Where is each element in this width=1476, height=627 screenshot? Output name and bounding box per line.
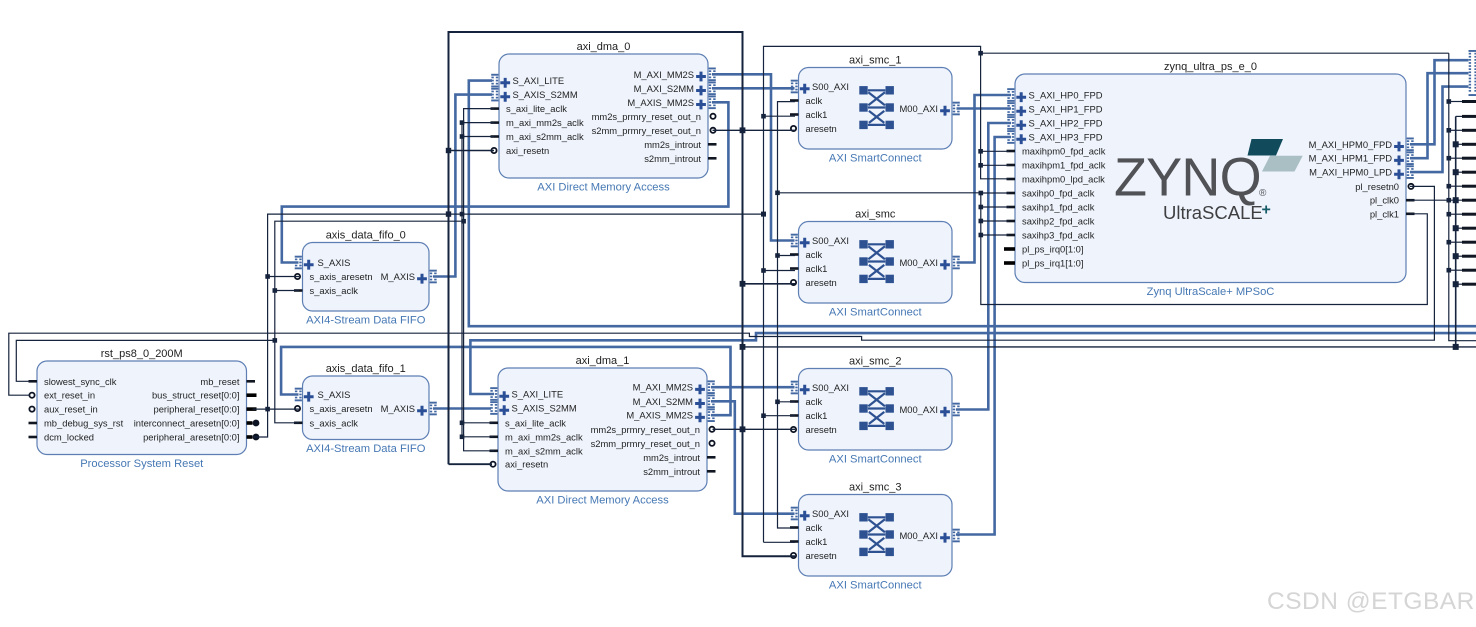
wire net clock trunk v274.8 (fifo aclk / y=221 run) [273,219,466,423]
svg-text:aclk: aclk [806,522,823,533]
svg-text:aclk1: aclk1 [806,109,828,120]
svg-text:aux_reset_in: aux_reset_in [44,404,98,415]
svg-text:saxihp1_fpd_aclk: saxihp1_fpd_aclk [1022,202,1095,213]
svg-text:axi_smc_1: axi_smc_1 [849,55,902,67]
svg-text:s2mm_prmry_reset_out_n: s2mm_prmry_reset_out_n [591,438,700,449]
svg-text:aresetn: aresetn [806,424,837,435]
svg-text:®: ® [1259,188,1267,199]
wire net m_axi aclk trunk v462.0 (dark) [460,120,494,439]
svg-text:m_axi_s2mm_aclk: m_axi_s2mm_aclk [506,131,584,142]
svg-text:M00_AXI: M00_AXI [899,103,938,114]
svg-text:AXI Direct Memory Access: AXI Direct Memory Access [536,495,669,507]
svg-text:M_AXIS_MM2S: M_AXIS_MM2S [627,97,694,108]
svg-text:axi_resetn: axi_resetn [505,459,548,470]
wire net zynq M_AXI_HPM1_FPD to top-right edge connector (blue) [1410,73,1469,158]
wire net pl_clk0 port line (dark to right edge) [1410,197,1476,203]
svg-text:saxihp0_fpd_aclk: saxihp0_fpd_aclk [1022,188,1095,199]
wire net dma_1 M_AXI_MM2S to axi_smc_2 S00_AXI (blue straight) [711,386,795,389]
svg-text:aclk1: aclk1 [806,536,828,547]
wire net axi_smc_3 M00_AXI to zynq S_AXI_HP3_FPD (blue) [956,137,1011,535]
wire net dma_0 M_AXI_MM2S to axi_smc S00_AXI (blue) [712,74,795,240]
IP block axi_smc_2 (AXI SmartConnect) [790,356,960,466]
svg-text:axis_data_fifo_1: axis_data_fifo_1 [326,363,406,375]
svg-text:interconnect_aresetn[0:0]: interconnect_aresetn[0:0] [134,418,240,429]
svg-text:s2mm_introut: s2mm_introut [643,466,700,477]
svg-text:aresetn: aresetn [806,123,837,134]
edge interface connector top-right (hatched, cropped) [1469,50,1476,96]
ZYNQ UltraSCALE+ logo inside zynq_ultra_ps_e_0 [1114,139,1303,223]
svg-text:S00_AXI: S00_AXI [812,81,849,92]
svg-text:pl_clk0: pl_clk0 [1370,195,1399,206]
svg-text:axi_dma_0: axi_dma_0 [577,41,631,53]
IP block axi_smc (AXI SmartConnect) [790,209,960,319]
svg-text:maxihpm0_fpd_aclk: maxihpm0_fpd_aclk [1022,146,1106,157]
svg-text:S_AXI_LITE: S_AXI_LITE [512,389,564,400]
svg-text:axi_resetn: axi_resetn [506,145,549,156]
svg-text:+: + [1262,202,1271,219]
wire net peripheral_aresetn rst_ps8 (dark: v267.6 + y=214 run) [253,212,767,437]
wire net s2mm_prmry_reset_out_n dma_0 / reset distribution (dark thick rectangle x=448.5..742.5) [446,32,1476,556]
svg-text:AXI Direct Memory Access: AXI Direct Memory Access [537,182,670,194]
svg-text:S_AXI_HP1_FPD: S_AXI_HP1_FPD [1029,104,1103,115]
svg-text:pl_clk1: pl_clk1 [1370,208,1399,219]
svg-text:m_axi_s2mm_aclk: m_axi_s2mm_aclk [505,445,583,456]
svg-text:maxihpm0_lpd_aclk: maxihpm0_lpd_aclk [1022,174,1105,185]
svg-text:M_AXI_MM2S: M_AXI_MM2S [633,382,693,393]
svg-text:pl_resetn0: pl_resetn0 [1355,181,1399,192]
IP block axi_dma_1 (AXI Direct Memory Access) [490,355,716,507]
svg-text:S_AXIS: S_AXIS [318,389,351,400]
wire net s_axi_lite_aclk dma_0/dma_1 (dark v463.6) [464,109,494,451]
wire net dma_1 M_AXI_S2MM to axi_smc_3 S00_AXI (blue) [711,401,795,513]
wire net pl_clk0 distribution (dark: y=46.4 top run, v763.5, v980.6 upper, v1448.8 right ladder) [761,46,1476,542]
svg-text:rst_ps8_0_200M: rst_ps8_0_200M [101,348,183,360]
wire net pl_resetn0 to ext_reset_in (dark with jogs y=333/336/340) [9,186,1435,395]
wire net dma_0 M_AXI_S2MM to axi_smc_1 S00_AXI (blue) [712,87,795,90]
svg-text:CSDN @ETGBAR: CSDN @ETGBAR [1267,588,1475,615]
svg-text:dcm_locked: dcm_locked [44,432,94,443]
svg-text:aclk: aclk [806,95,823,106]
watermark CSDN @ETGBAR [1267,588,1475,615]
svg-text:AXI SmartConnect: AXI SmartConnect [829,580,923,592]
svg-text:aresetn: aresetn [806,277,837,288]
wire net dma_1 M_AXIS_MM2S to fifo_1 S_AXIS (blue loop) [281,347,730,415]
svg-text:axis_data_fifo_0: axis_data_fifo_0 [326,230,406,242]
svg-text:slowest_sync_clk: slowest_sync_clk [44,376,117,387]
svg-text:M_AXI_S2MM: M_AXI_S2MM [633,396,694,407]
wire net S_AXI_LITE dma_0 (blue: port to right edge via y=326) [469,81,1476,327]
svg-text:S00_AXI: S00_AXI [812,508,849,519]
svg-text:AXI SmartConnect: AXI SmartConnect [829,307,923,319]
svg-text:s_axis_aclk: s_axis_aclk [310,417,359,428]
svg-text:AXI4-Stream Data FIFO: AXI4-Stream Data FIFO [306,443,426,455]
svg-text:AXI4-Stream Data FIFO: AXI4-Stream Data FIFO [306,315,426,327]
svg-text:axi_dma_1: axi_dma_1 [576,355,630,367]
svg-text:mb_reset: mb_reset [200,376,239,387]
svg-text:S_AXI_LITE: S_AXI_LITE [513,75,565,86]
svg-text:pl_ps_irq1[1:0]: pl_ps_irq1[1:0] [1022,258,1084,269]
svg-text:S_AXI_HP3_FPD: S_AXI_HP3_FPD [1029,132,1103,143]
svg-text:M_AXI_HPM1_FPD: M_AXI_HPM1_FPD [1309,153,1393,164]
svg-text:mb_debug_sys_rst: mb_debug_sys_rst [44,418,124,429]
svg-text:s2mm_introut: s2mm_introut [644,153,701,164]
svg-text:aclk1: aclk1 [806,410,828,421]
IP block zynq_ultra_ps_e_0 (Zynq UltraScale+ MPSoC) [1004,61,1415,298]
svg-text:M_AXIS_MM2S: M_AXIS_MM2S [626,410,693,421]
wire net pl_clk1 to saxihp aclks and smc aclk trunk (dark) [775,102,1427,528]
wire net axi_smc_1 M00_AXI to zynq S_AXI_HP1_FPD (blue) [957,107,1012,110]
svg-text:AXI SmartConnect: AXI SmartConnect [829,454,923,466]
svg-text:S_AXIS_S2MM: S_AXIS_S2MM [513,89,578,100]
svg-text:m_axi_mm2s_aclk: m_axi_mm2s_aclk [505,431,583,442]
svg-text:ZYNQ: ZYNQ [1114,148,1261,208]
IP block axi_smc_3 (AXI SmartConnect) [790,482,960,592]
IP block rst_ps8_0_200M (Processor System Reset) [29,348,260,470]
svg-text:mm2s_prmry_reset_out_n: mm2s_prmry_reset_out_n [591,424,700,435]
svg-text:Zynq UltraScale+ MPSoC: Zynq UltraScale+ MPSoC [1147,286,1275,298]
svg-text:s_axis_aresetn: s_axis_aresetn [310,403,373,414]
IP block axis_data_fifo_1 (AXI4-Stream Data FIFO) [294,363,437,455]
wire net right-edge vertical v1455.7 with stub ladder (dark) [1453,115,1476,347]
svg-text:S_AXIS_S2MM: S_AXIS_S2MM [512,403,577,414]
svg-text:pl_ps_irq0[1:0]: pl_ps_irq0[1:0] [1022,244,1084,255]
svg-text:S_AXIS: S_AXIS [318,257,351,268]
svg-text:S_AXI_HP2_FPD: S_AXI_HP2_FPD [1029,118,1103,129]
IP block axi_smc_1 (AXI SmartConnect) [790,55,960,165]
svg-text:M00_AXI: M00_AXI [899,530,938,541]
svg-text:AXI SmartConnect: AXI SmartConnect [829,153,923,165]
svg-text:M_AXI_MM2S: M_AXI_MM2S [634,69,694,80]
svg-text:s_axis_aresetn: s_axis_aresetn [310,271,373,282]
svg-text:ext_reset_in: ext_reset_in [44,390,95,401]
wire net fifo_0 M_AXIS to dma_0 S_AXIS_S2MM (blue) [433,95,492,277]
svg-text:S00_AXI: S00_AXI [812,382,849,393]
svg-text:peripheral_reset[0:0]: peripheral_reset[0:0] [154,404,240,415]
svg-text:s2mm_prmry_reset_out_n: s2mm_prmry_reset_out_n [592,125,701,136]
svg-text:s_axis_aclk: s_axis_aclk [310,285,359,296]
svg-text:peripheral_aresetn[0:0]: peripheral_aresetn[0:0] [143,432,239,443]
IP block axi_dma_0 (AXI Direct Memory Access) [491,41,717,194]
svg-text:S00_AXI: S00_AXI [812,235,849,246]
wire net axi_smc M00_AXI to zynq S_AXI_HP0_FPD (blue) [957,95,1012,263]
wire net slowest_sync_clk (dark y=340.4 from x=16.3 to clock trunk) [16,340,275,381]
svg-text:bus_struct_reset[0:0]: bus_struct_reset[0:0] [152,390,240,401]
wire net S_AXI_LITE dma_1 (blue via y=340/333 jog to right edge) [470,333,1476,394]
svg-text:mm2s_prmry_reset_out_n: mm2s_prmry_reset_out_n [592,111,701,122]
IP block axis_data_fifo_0 (AXI4-Stream Data FIFO) [294,230,437,327]
svg-text:Processor System Reset: Processor System Reset [80,458,204,470]
wire net dma_0 M_AXIS_MM2S to fifo_0 S_AXIS (blue loop) [282,102,729,262]
svg-text:S_AXI_HP0_FPD: S_AXI_HP0_FPD [1029,90,1103,101]
svg-text:M_AXI_S2MM: M_AXI_S2MM [634,83,695,94]
svg-text:s_axi_lite_aclk: s_axi_lite_aclk [505,417,566,428]
svg-text:axi_smc_2: axi_smc_2 [849,356,902,368]
svg-text:s_axi_lite_aclk: s_axi_lite_aclk [506,103,567,114]
svg-text:M00_AXI: M00_AXI [899,257,938,268]
wire net axi_smc_2 M00_AXI to zynq S_AXI_HP2_FPD (blue) [956,123,1011,410]
wire net zynq M_AXI_HPM0_FPD to top-right edge connector (blue) [1410,60,1469,144]
svg-text:mm2s_introut: mm2s_introut [643,452,700,463]
svg-text:M_AXI_HPM0_LPD: M_AXI_HPM0_LPD [1309,167,1392,178]
wire net zynq M_AXI_HPM0_LPD to top-right edge connector (blue) [1410,87,1469,173]
svg-text:m_axi_mm2s_aclk: m_axi_mm2s_aclk [506,117,584,128]
svg-text:axi_smc_3: axi_smc_3 [849,482,902,494]
svg-text:mm2s_introut: mm2s_introut [644,139,701,150]
svg-text:UltraSCALE: UltraSCALE [1163,202,1263,223]
svg-text:saxihp2_fpd_aclk: saxihp2_fpd_aclk [1022,216,1095,227]
svg-text:M_AXIS: M_AXIS [381,403,415,414]
svg-text:M_AXI_HPM0_FPD: M_AXI_HPM0_FPD [1309,139,1393,150]
svg-text:saxihp3_fpd_aclk: saxihp3_fpd_aclk [1022,230,1095,241]
svg-text:maxihpm1_fpd_aclk: maxihpm1_fpd_aclk [1022,160,1106,171]
svg-text:aclk: aclk [806,396,823,407]
wire net fifo_1 M_AXIS to dma_1 S_AXIS_S2MM (blue straight) [433,407,491,410]
svg-text:axi_smc: axi_smc [855,209,896,221]
svg-text:zynq_ultra_ps_e_0: zynq_ultra_ps_e_0 [1164,61,1257,73]
svg-text:aresetn: aresetn [806,550,837,561]
svg-text:M00_AXI: M00_AXI [899,404,938,415]
svg-text:M_AXIS: M_AXIS [381,271,415,282]
svg-text:aclk: aclk [806,249,823,260]
svg-text:aclk1: aclk1 [806,263,828,274]
